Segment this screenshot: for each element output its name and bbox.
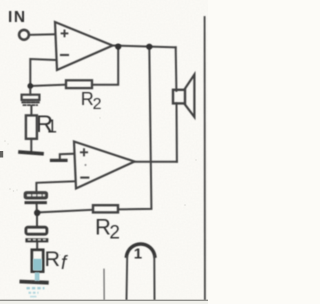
- svg-text:2: 2: [109, 222, 120, 243]
- svg-text:2: 2: [93, 96, 102, 113]
- svg-text:R: R: [45, 247, 61, 271]
- svg-text:1: 1: [134, 246, 142, 263]
- svg-text:IN: IN: [8, 9, 27, 26]
- svg-text:1: 1: [47, 117, 57, 137]
